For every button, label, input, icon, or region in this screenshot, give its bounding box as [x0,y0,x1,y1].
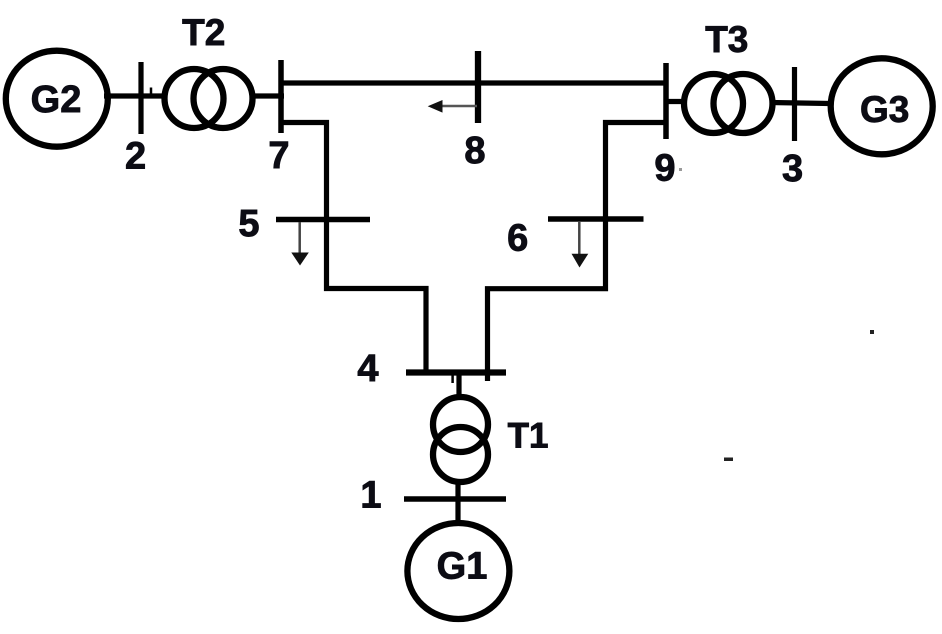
svg-text:8: 8 [464,130,485,172]
svg-text:G2: G2 [31,79,82,121]
svg-text:T3: T3 [705,19,748,60]
svg-text:5: 5 [238,203,259,245]
svg-text:9: 9 [654,148,675,190]
svg-text:6: 6 [507,218,528,260]
svg-text:1: 1 [360,475,381,517]
svg-text:G1: G1 [437,546,488,588]
svg-text:4: 4 [357,348,378,390]
svg-text:7: 7 [268,135,289,177]
svg-text:G3: G3 [860,89,909,130]
svg-text:2: 2 [125,136,146,178]
svg-text:T2: T2 [182,12,225,53]
svg-text:T1: T1 [508,417,549,456]
svg-text:3: 3 [782,148,803,190]
